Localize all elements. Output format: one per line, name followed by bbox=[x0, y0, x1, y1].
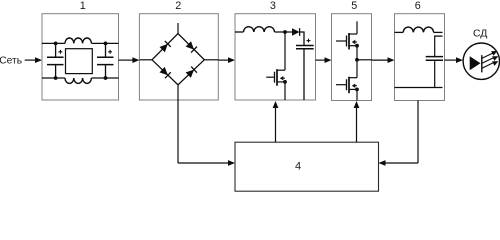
wire: arrow block3 to block5 bbox=[316, 57, 332, 63]
capacitor C5 (shunt output capacitor) bbox=[426, 57, 443, 88]
LED circle bbox=[463, 43, 499, 79]
block 4 box (control unit) bbox=[235, 142, 379, 191]
capacitor C2 (right, polarized) bbox=[97, 43, 114, 78]
capacitor C4 (series, horizontal plates) bbox=[434, 36, 443, 56]
wire: block4 up-arrow to block 5 bbox=[354, 101, 360, 142]
LED light arrow 1 bbox=[482, 51, 497, 58]
wire: control bus left into block 4 bbox=[178, 160, 235, 166]
LED light arrow 3 bbox=[482, 61, 498, 68]
svg-text:6: 6 bbox=[415, 0, 421, 12]
choke core bbox=[66, 49, 93, 74]
inductor L1a (common-mode choke top winding) bbox=[65, 38, 91, 43]
node: half-bridge midpoint bbox=[355, 58, 359, 62]
block 5 box (half-bridge inverter) bbox=[332, 14, 372, 101]
svg-text:4: 4 bbox=[295, 161, 301, 173]
node: bottom-left junction bbox=[54, 76, 58, 80]
node: bottom-right junction bbox=[104, 76, 108, 80]
diode D4 (lower-right) bbox=[185, 67, 197, 79]
diode D2 (upper-right) bbox=[185, 41, 197, 53]
block 6 box (output LC filter) bbox=[395, 14, 445, 101]
wire: block6 bottom to control bus bbox=[417, 101, 419, 164]
transistor Q1 (boost MOSFET) bbox=[266, 69, 287, 100]
wire: arrow block6 to LED bbox=[445, 57, 464, 63]
svg-text:Сеть: Сеть bbox=[0, 56, 22, 67]
wire: arrow block1 to block2 bbox=[119, 57, 140, 63]
wire: block6 bottom line bbox=[395, 87, 443, 89]
wire: inductor to diode bbox=[275, 31, 293, 33]
block 2 box (bridge rectifier) bbox=[139, 14, 218, 100]
inductor L1b (common-mode choke bottom winding) bbox=[65, 78, 91, 83]
wire: upper drain stub bbox=[356, 21, 358, 34]
svg-text:1: 1 bbox=[80, 0, 86, 12]
capacitor C3 (bulk, polarized) bbox=[296, 39, 314, 100]
wire: diode to capacitor top bbox=[300, 32, 304, 45]
block 1 box (EMI filter) bbox=[42, 14, 119, 100]
wire: top stub of diamond bbox=[177, 23, 179, 34]
wire: block6 top line right (upper plate of series cap) bbox=[434, 31, 443, 33]
wire: control bus right into block 4 bbox=[379, 160, 419, 166]
bridge diamond bbox=[152, 34, 204, 85]
wire: arrow block5 to block6 bbox=[372, 57, 395, 63]
wire: right stub out of diamond bbox=[204, 59, 218, 61]
LED light arrow 2 bbox=[482, 56, 498, 63]
transistor Q2 (high-side MOSFET) bbox=[336, 33, 359, 60]
wire: block1 top line right bbox=[91, 42, 118, 44]
block 3 box (PFC boost converter) bbox=[235, 14, 316, 100]
svg-text:3: 3 bbox=[270, 0, 276, 12]
svg-text:2: 2 bbox=[175, 0, 181, 12]
node: top-right junction bbox=[104, 42, 108, 46]
wire: block1 top line left bbox=[42, 42, 65, 44]
capacitor C1 (left, polarized) bbox=[47, 43, 64, 78]
inductor L2 (boost inductor) bbox=[244, 27, 275, 32]
node: top-left junction bbox=[54, 42, 58, 46]
transistor Q3 (low-side MOSFET) bbox=[336, 77, 359, 101]
wire: bridge bottom down to control bus bbox=[177, 85, 179, 163]
wire: block3 top line left bbox=[235, 31, 244, 33]
wire: block1 bottom line right bbox=[91, 77, 118, 79]
wire: left stub into diamond bbox=[139, 59, 152, 61]
wire: block1 bottom line left bbox=[42, 77, 65, 79]
diode D5 (boost diode) bbox=[292, 28, 300, 36]
LED diode triangle bbox=[470, 56, 481, 70]
diode D1 (upper-left) bbox=[159, 41, 171, 53]
wire: midpoint to right edge bbox=[357, 59, 372, 61]
inductor L3 (output inductor) bbox=[403, 27, 433, 32]
LED cathode bar bbox=[481, 55, 483, 72]
node: boost switch node bbox=[283, 30, 287, 34]
wire: arrow block2 to block3 bbox=[218, 57, 235, 63]
wire: block4 up-arrow to block 3 bbox=[273, 101, 279, 142]
diode D3 (lower-left) bbox=[159, 67, 171, 79]
svg-text:СД: СД bbox=[473, 28, 487, 40]
wire: midpoint down to lower drain bbox=[356, 60, 358, 78]
wire: block6 top line left bbox=[395, 31, 404, 33]
wire: mains input arrow into block 1 bbox=[25, 57, 42, 63]
svg-text:5: 5 bbox=[351, 0, 357, 12]
wire: drain lead down bbox=[284, 32, 286, 70]
